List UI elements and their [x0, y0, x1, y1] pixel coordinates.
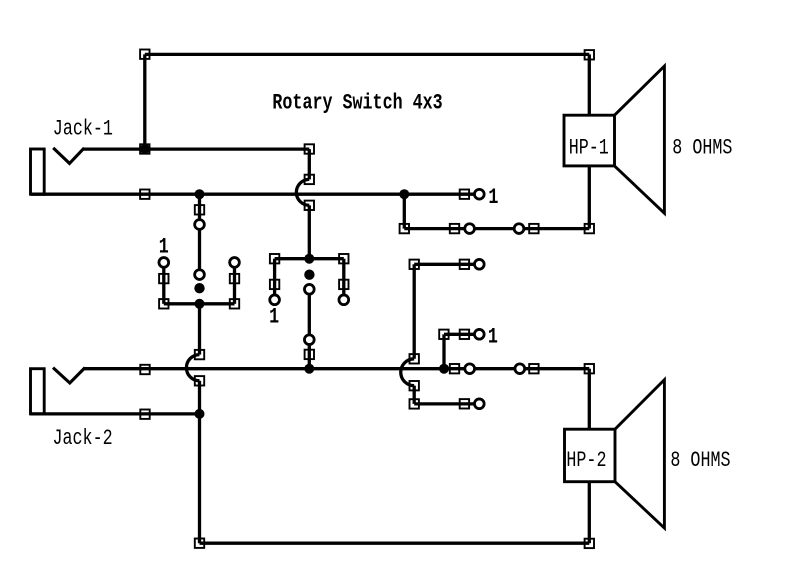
wire bottom bus [200, 542, 590, 545]
junction pole-2 / Jack-2 tip [304, 364, 314, 374]
terminal pole-2 right branch [339, 280, 348, 289]
wire pole-2 riser upper [308, 149, 311, 179]
terminal pole-3 stub [460, 330, 469, 339]
wire Jack-1 sleeve [31, 193, 480, 196]
contact pole-4 bottom [474, 399, 484, 409]
junction pole-1 bar [195, 299, 205, 309]
contact pole-1 common lower [195, 270, 205, 280]
terminal HP-1 row left [450, 224, 459, 233]
terminal Jack-2 tip [140, 365, 149, 374]
wire pole-4 upper column [413, 264, 416, 359]
wire top-left vertical [143, 54, 146, 149]
wire Jack-1 tip [84, 147, 310, 150]
contact HP-1 row left [465, 224, 475, 234]
svg-text:Jack-1: Jack-1 [53, 115, 113, 141]
svg-text:8 OHMS: 8 OHMS [672, 134, 732, 160]
terminal pole-4 bottom corner [410, 399, 419, 408]
svg-text:1: 1 [488, 323, 498, 349]
terminal pole-1 bar left corner [159, 299, 168, 308]
wire pole-2 riser lower [308, 205, 311, 258]
contact pole-2 wiper ring [304, 284, 314, 294]
terminal pole-4 top stub [460, 260, 469, 269]
wire pole-3 riser [442, 334, 445, 368]
wire pole-2 bar [275, 257, 344, 260]
speaker HP-2 cone [615, 380, 664, 528]
contact pole-1 wiper upper [195, 220, 205, 230]
wire pole-1 bar [164, 302, 235, 305]
wire pole-1 lower column [198, 304, 201, 355]
junction HP-1 row / Jack-1 sleeve [399, 189, 409, 199]
wire pole-3 position-1 stub [444, 333, 479, 336]
terminal hop upper pole-2 [305, 175, 314, 184]
wire hop over Jack-2 tip [186, 355, 199, 381]
contact pole-2 position 1 [270, 295, 280, 305]
jack J2 tip contact [53, 368, 85, 383]
speaker HP-1 box [564, 115, 615, 166]
terminal Jack-2 sleeve [140, 410, 149, 419]
junction pole-3 / Jack-2 tip [439, 364, 449, 374]
terminal pole-2 lower stem [305, 350, 314, 359]
contact sleeve row position 1 [474, 189, 484, 199]
terminal pole-1 bar right corner [230, 299, 239, 308]
contact pole-2 lower [304, 335, 314, 345]
wire pole-1 left contact branch [162, 262, 165, 303]
svg-text:1: 1 [269, 303, 279, 329]
wire HP-2 plus lead [588, 369, 591, 430]
wire Jack-2 sleeve [31, 412, 200, 415]
terminal bottom-left corner [195, 539, 204, 548]
terminal HP-2 bottom [585, 539, 594, 548]
contact HP-2 row right [515, 364, 525, 374]
wire HP-1 plus lead [588, 54, 591, 115]
svg-text:1: 1 [159, 233, 169, 259]
wiper ball pole-1 [194, 283, 204, 293]
terminal pole-2 bar left corner [270, 254, 279, 263]
svg-text:HP-2: HP-2 [566, 447, 606, 473]
terminal Jack-1 sleeve [140, 190, 149, 199]
terminal pole-2 left branch [270, 280, 279, 289]
terminal pole-2 corner [305, 144, 314, 153]
wire pole-2 lower column [308, 289, 311, 368]
wire bottom left vertical [198, 414, 201, 543]
terminal HP-1 top corner [585, 50, 594, 59]
terminal pole-1 left branch [159, 274, 168, 283]
terminal top-left corner [140, 50, 149, 59]
terminal HP-1 row right [529, 224, 538, 233]
terminal HP-1 riser corner [400, 224, 409, 233]
junction pole-1 / Jack-1 sleeve [195, 189, 205, 199]
wire pole-4 bottom stub [414, 402, 479, 405]
wire pole-1 upper column [198, 194, 201, 279]
junction pole-2 bar [304, 254, 314, 264]
wire pole-2 left contact branch [273, 259, 276, 300]
svg-text:Jack-2: Jack-2 [53, 425, 113, 451]
terminal pole-4 top corner [410, 260, 419, 269]
wire HP-2 minus lead [588, 482, 591, 544]
svg-text:Rotary Switch 4x3: Rotary Switch 4x3 [272, 89, 442, 115]
wire Jack-2 tip [84, 367, 589, 370]
terminal hop upper pole-1 [195, 350, 204, 359]
wiper ball pole-2 [304, 270, 314, 280]
wire pole-4 top stub [414, 263, 479, 266]
terminal hop lower pole-1 [195, 376, 204, 385]
terminal HP-2 row right [529, 364, 538, 373]
wire HP-1 minus row [404, 227, 589, 230]
wire pole-4 hop over Jack-2 tip [401, 359, 414, 386]
svg-text:8 OHMS: 8 OHMS [670, 447, 730, 473]
contact pole-3 position 1 [474, 329, 484, 339]
terminal Jack-1 tip junction [140, 144, 149, 153]
terminal sleeve row stub [460, 190, 469, 199]
jack J1 body [31, 149, 45, 194]
contact HP-2 row left [465, 364, 475, 374]
terminal HP-2 row left [450, 364, 459, 373]
terminal pole-1 stem [195, 205, 204, 214]
contact pole-4 top [474, 259, 484, 269]
wire HP-1 minus lead lower [588, 166, 591, 229]
junction Jack-1 tip / top bus [140, 144, 150, 154]
wire HP-1 minus riser [403, 194, 406, 228]
contact pole-1 position 2 [230, 258, 240, 268]
terminal pole-4 hop lower [410, 381, 419, 390]
terminal pole-2 bar right corner [339, 254, 348, 263]
terminal HP-2 top [585, 364, 594, 373]
wire top bus [145, 53, 590, 56]
svg-text:HP-1: HP-1 [569, 134, 609, 160]
jack J1 tip contact [53, 148, 84, 164]
terminal pole-1 right branch [230, 274, 239, 283]
wire pole-4 lower column [413, 386, 416, 404]
contact HP-1 row right [514, 224, 524, 234]
terminal pole-4 hop upper [410, 354, 419, 363]
wire pole-1 to Jack-2 sleeve [198, 381, 201, 414]
terminal hop lower pole-2 [305, 201, 314, 210]
svg-text:1: 1 [488, 184, 498, 210]
contact pole-1 position 1 [159, 258, 169, 268]
jack J2 body [31, 369, 45, 414]
terminal pole-3 corner [439, 330, 448, 339]
wire hop over Jack-1 sleeve [296, 179, 309, 205]
terminal HP-1 bottom [585, 224, 594, 233]
junction pole-1 / Jack-2 sleeve [195, 409, 205, 419]
terminal pole-4 bottom stub [460, 399, 469, 408]
wire pole-2 right contact branch [342, 259, 345, 300]
wire pole-1 right contact branch [233, 262, 236, 303]
speaker HP-2 box [565, 429, 616, 482]
contact pole-2 position 2 [339, 295, 349, 305]
speaker HP-1 cone [615, 66, 665, 213]
